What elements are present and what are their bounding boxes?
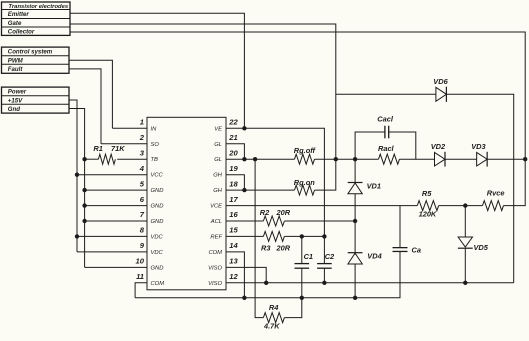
svg-text:Ca: Ca [412, 245, 421, 254]
pin 8 VDC wire [77, 226, 164, 241]
svg-text:4: 4 [139, 164, 145, 173]
svg-text:R1: R1 [93, 144, 102, 153]
resistor Rg.on [294, 178, 315, 195]
svg-text:VISO: VISO [208, 281, 222, 287]
junction VD1/Cacl node [353, 157, 357, 161]
svg-text:Emitter: Emitter [8, 11, 30, 18]
junction Gnd/GND5 [82, 188, 86, 192]
pin 19 GH label [213, 164, 238, 179]
svg-text:Rg.off: Rg.off [294, 146, 317, 155]
resistor Rvce [483, 188, 505, 210]
resistor Rg.off [294, 146, 317, 164]
svg-text:Gate: Gate [8, 20, 22, 27]
junction GL pins [242, 157, 246, 161]
wire: Fault to pin2 SO [69, 69, 101, 144]
svg-text:VE: VE [214, 126, 222, 132]
svg-text:Gnd: Gnd [8, 106, 20, 113]
svg-text:R2: R2 [260, 208, 270, 217]
capacitor C2 [317, 236, 335, 268]
svg-text:13: 13 [229, 257, 238, 266]
junction collector/VD3 [523, 157, 527, 161]
capacitor Ca [393, 206, 421, 255]
pin 10 GND wire [85, 257, 164, 272]
pin 13 VISO label [208, 257, 238, 272]
junction Gnd/GND6 [82, 203, 86, 207]
resistor R2 20R on ACL row [226, 208, 291, 226]
wire: VD4 anode to COM bus [354, 264, 356, 298]
junction GH pins [242, 188, 246, 192]
junction VE/emitter [242, 126, 246, 130]
IC U1 driver [147, 117, 226, 289]
svg-text:17: 17 [229, 195, 238, 204]
svg-text:15: 15 [229, 226, 238, 235]
wire: VD2 to VD3 [445, 158, 476, 160]
svg-text:19: 19 [229, 164, 238, 173]
svg-text:Transistor electrodes: Transistor electrodes [8, 4, 69, 10]
resistor R3 20R on REF row [226, 231, 291, 252]
svg-text:GND: GND [151, 265, 164, 271]
svg-text:Racl: Racl [378, 144, 395, 153]
wire: VISO row pin12 [226, 282, 514, 284]
connector box: Transistor electrodes [2, 2, 71, 36]
svg-text:GND: GND [151, 204, 164, 210]
svg-text:C1: C1 [304, 252, 313, 261]
svg-text:Collector: Collector [8, 29, 35, 36]
resistor R4 4.7K gate-emitter [255, 159, 302, 331]
svg-text:Rvce: Rvce [487, 188, 505, 197]
svg-text:12: 12 [229, 272, 238, 281]
junction gate node [334, 157, 338, 161]
junction REF/C1 [300, 234, 304, 238]
svg-text:20R: 20R [276, 243, 291, 252]
svg-text:R4: R4 [269, 303, 278, 312]
svg-text:VCE: VCE [210, 204, 222, 210]
pin 15 REF label [210, 226, 238, 241]
svg-text:Power: Power [8, 89, 27, 96]
resistor Racl [378, 144, 400, 164]
svg-text:ACL: ACL [210, 219, 222, 225]
wire: R5 to Rvce [439, 205, 483, 207]
svg-text:VD6: VD6 [433, 77, 448, 86]
diode VD2 [431, 142, 446, 167]
svg-text:VDC: VDC [151, 250, 164, 256]
wire: Emitter electrode to VE pin22 [70, 13, 244, 128]
diode VD4 [348, 221, 382, 264]
svg-text:R5: R5 [422, 189, 432, 198]
wire: PWM to pin1 IN [69, 60, 112, 128]
junction ACL/VD1/VD4 [353, 219, 357, 223]
svg-text:VD3: VD3 [471, 142, 486, 151]
junction Gnd/R1 [82, 157, 86, 161]
wire: gate node to VD1 node [336, 158, 355, 160]
svg-text:IN: IN [151, 126, 158, 132]
pin 18 GH label [213, 179, 238, 194]
svg-text:Cacl: Cacl [377, 114, 394, 123]
wire: VE row pin22 to C2 branch [226, 128, 324, 236]
svg-text:VD5: VD5 [474, 243, 489, 252]
svg-text:11: 11 [136, 272, 144, 281]
junction REF/C2 [322, 234, 326, 238]
resistor R5 120K [417, 189, 438, 219]
junction +15V/VCC [75, 173, 79, 177]
svg-text:TB: TB [151, 157, 159, 163]
svg-text:2: 2 [139, 133, 145, 142]
svg-text:GND: GND [151, 188, 164, 194]
diode VD6 row [336, 77, 514, 283]
wire: pin21 GL join pin20 [226, 144, 244, 159]
svg-text:GL: GL [214, 157, 222, 163]
junction VD4/COM bus [353, 296, 357, 300]
wire: C1 to COM bus [301, 268, 303, 298]
svg-text:Fault: Fault [8, 66, 24, 73]
svg-text:VCC: VCC [151, 173, 164, 179]
pin 6 GND wire [85, 195, 164, 210]
wire: Gate electrode down to gate node [70, 24, 336, 159]
svg-text:1: 1 [140, 118, 144, 127]
pin 2 SO wire [101, 133, 159, 148]
svg-text:20R: 20R [276, 208, 291, 217]
diode VD1 [348, 159, 381, 194]
wire: C2 to VISO row [323, 268, 325, 283]
junction VISO pins [264, 281, 268, 285]
capacitor Cacl [355, 114, 416, 159]
wire: +15V rail to VCC/VDC [69, 100, 77, 252]
junction pin14/COM bus [242, 296, 246, 300]
pin 12 VISO label [208, 272, 238, 287]
wire: GL row to gate node [315, 158, 336, 160]
svg-text:REF: REF [210, 234, 222, 240]
junction +15V/VDC8 [75, 234, 79, 238]
wire: pin13 VISO join pin12 row [226, 267, 266, 282]
svg-text:COM: COM [208, 250, 222, 256]
pin 4 VCC wire [77, 164, 164, 179]
connector box: Power [2, 87, 70, 113]
wire: VD1 node to Racl [355, 158, 378, 160]
svg-text:GH: GH [213, 188, 223, 194]
wire: Racl to VD2 [400, 158, 435, 160]
pin 5 GND wire [85, 179, 164, 194]
svg-text:COM: COM [151, 281, 165, 287]
svg-text:VD1: VD1 [367, 182, 381, 191]
connector box: Control system [2, 47, 70, 73]
svg-text:GL: GL [214, 142, 222, 148]
wire: COM bottom bus [135, 252, 400, 298]
pin 7 GND wire [85, 210, 164, 225]
svg-text:22: 22 [228, 118, 238, 127]
wire: VD3 to collector node [487, 158, 525, 160]
pin 22 VE label [214, 118, 238, 133]
capacitor C1 [295, 236, 314, 268]
svg-text:4.7K: 4.7K [263, 322, 280, 331]
junction C1/R4/COM bus [300, 296, 304, 300]
wire: GH row pin18 [226, 189, 295, 191]
svg-text:71K: 71K [111, 144, 125, 153]
diode VD5 [458, 206, 489, 253]
wire: pin14 COM down to bus [226, 252, 244, 298]
junction Gnd/GND7 [82, 219, 86, 223]
svg-text:Rg.on: Rg.on [294, 178, 315, 187]
diode VD3 [471, 142, 487, 167]
svg-text:14: 14 [229, 241, 238, 250]
pin 21 GL label [214, 133, 237, 148]
svg-text:16: 16 [229, 210, 238, 219]
svg-text:VISO: VISO [208, 265, 222, 271]
svg-text:VD4: VD4 [367, 251, 381, 260]
junction VD5/VISO [463, 281, 467, 285]
pin 16 ACL label [210, 210, 239, 225]
pin 3 TB wire [117, 148, 158, 163]
svg-text:20: 20 [228, 148, 238, 157]
svg-text:18: 18 [229, 179, 238, 188]
pin 20 GL label [214, 148, 238, 163]
junction C2/VISO [322, 281, 326, 285]
svg-text:R3: R3 [261, 243, 271, 252]
wire: R2 to clamp node [284, 220, 355, 222]
svg-text:PWM: PWM [8, 58, 24, 65]
svg-text:+15V: +15V [8, 97, 23, 104]
wire: VD5 to VISO row [464, 248, 466, 283]
svg-text:Control system: Control system [8, 49, 53, 56]
svg-text:VDC: VDC [151, 234, 164, 240]
resistor R1 71K [85, 144, 126, 164]
svg-text:C2: C2 [325, 252, 335, 261]
wire: Gnd rail to GND pins [69, 109, 85, 268]
wire: VD1 anode to ACL node [354, 194, 356, 221]
junction R5/Rvce/VD5 [463, 203, 467, 207]
wire: pin19 GH join pin18 [226, 175, 244, 190]
svg-text:GND: GND [151, 219, 164, 225]
wire: GL row pin20 [226, 158, 295, 160]
wire: VCE row pin17 [226, 205, 417, 207]
wire: collector branch down to Rvce [504, 159, 526, 205]
svg-text:120K: 120K [419, 210, 437, 219]
junction R4 tap on GL row [253, 157, 257, 161]
svg-text:SO: SO [151, 142, 160, 148]
wire: Rg.on to gate node [315, 159, 336, 190]
wire: REF row to C1, C2 [284, 235, 324, 237]
pin 14 COM label [208, 241, 238, 256]
pin 9 VDC wire [77, 241, 164, 256]
pin 1 IN wire [112, 118, 157, 133]
wire: Collector electrode to VD3 output node [70, 32, 525, 159]
svg-text:GH: GH [213, 173, 223, 179]
pin 17 VCE label [210, 195, 238, 210]
svg-text:VD2: VD2 [431, 142, 446, 151]
pin 11 COM wire [135, 272, 164, 298]
svg-text:21: 21 [228, 133, 237, 142]
svg-text:10: 10 [136, 257, 145, 266]
